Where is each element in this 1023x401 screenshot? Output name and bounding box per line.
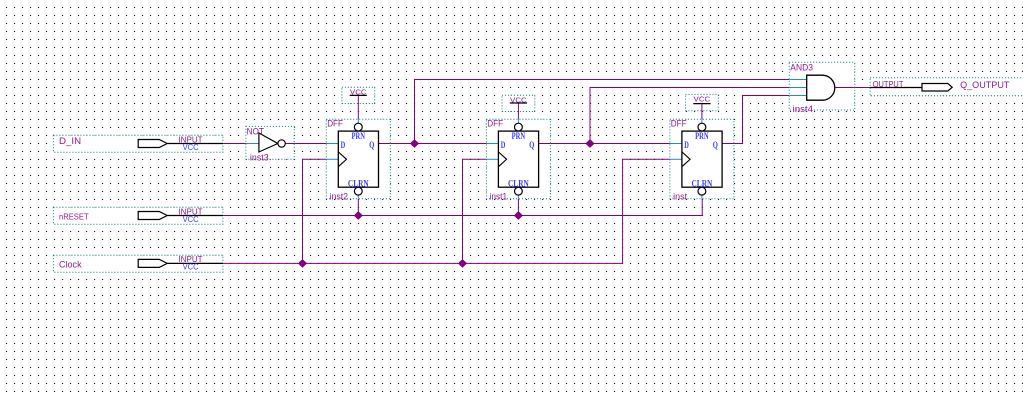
svg-text:CLRN: CLRN: [692, 179, 713, 189]
svg-text:DFF: DFF: [671, 119, 687, 129]
svg-text:inst1: inst1: [490, 191, 508, 201]
wire inst2 Q node up to AND3 input 1: [415, 80, 790, 144]
wire nRESET net: [223, 199, 702, 216]
svg-text:PRN: PRN: [695, 131, 709, 141]
svg-text:Q_OUTPUT: Q_OUTPUT: [960, 80, 1009, 91]
svg-text:Q: Q: [529, 140, 534, 150]
svg-text:DFF: DFF: [487, 119, 503, 129]
svg-text:VCC: VCC: [183, 215, 199, 224]
svg-text:nRESET: nRESET: [59, 211, 89, 221]
svg-text:D_IN: D_IN: [59, 136, 81, 147]
svg-text:AND3: AND3: [790, 63, 813, 73]
wire AND3 output stub: [835, 87, 855, 89]
wire inst Q up to AND3 input 3: [734, 96, 789, 144]
wire Clock riser to inst2 clock: [303, 159, 327, 263]
and gate AND3 inst4: [789, 62, 855, 114]
junction at inst1 CLRN: [514, 211, 523, 220]
svg-text:VCC: VCC: [183, 263, 199, 272]
NOT gate inst3: [246, 126, 294, 162]
input pin D_IN: [53, 135, 223, 152]
svg-text:inst3: inst3: [250, 152, 269, 162]
wire inst2 CLRN to nRESET net: [357, 199, 359, 216]
svg-text:VCC: VCC: [183, 143, 199, 152]
wire inst1 CLRN to nRESET net: [517, 199, 519, 216]
output pin Q_OUTPUT: [870, 78, 1023, 96]
junction at inst1 Q node: [585, 139, 594, 148]
svg-text:inst2: inst2: [330, 191, 349, 201]
DFF inst1: [486, 119, 550, 202]
wire AND3 output to Q_OUTPUT pin: [855, 87, 870, 89]
DFF inst2: [326, 119, 390, 202]
junction Clock riser inst2: [298, 259, 307, 268]
junction at inst2 CLRN: [354, 211, 363, 220]
svg-text:inst: inst: [673, 191, 687, 201]
DFF inst: [670, 119, 734, 202]
svg-text:Clock: Clock: [59, 260, 82, 270]
input pin Clock: [53, 255, 223, 272]
power VCC symbol for inst1: [502, 95, 535, 111]
wire VCC to inst PRN: [701, 104, 703, 119]
wire inst1 Q node up to AND3 input 2: [590, 88, 789, 144]
wire D_IN pin to NOT input: [223, 143, 246, 145]
power VCC symbol for inst2: [342, 87, 375, 103]
power VCC symbol for inst: [686, 94, 719, 110]
svg-text:CLRN: CLRN: [348, 179, 369, 189]
input pin nRESET: [53, 207, 223, 224]
wire NOT output to inst2 D: [294, 143, 326, 145]
svg-text:D: D: [684, 140, 689, 150]
svg-text:D: D: [341, 140, 346, 150]
svg-text:DFF: DFF: [327, 119, 343, 129]
svg-text:PRN: PRN: [352, 131, 366, 141]
junction Clock riser inst1: [458, 259, 467, 268]
svg-text:PRN: PRN: [512, 131, 526, 141]
svg-text:inst4: inst4: [793, 104, 813, 114]
svg-text:CLRN: CLRN: [508, 179, 529, 189]
svg-text:VCC: VCC: [694, 95, 711, 104]
wire Clock riser to inst1 clock: [463, 159, 487, 263]
wire VCC to inst1 PRN: [517, 104, 519, 120]
svg-text:OUTPUT: OUTPUT: [873, 80, 904, 89]
wire VCC to inst2 PRN: [357, 96, 359, 119]
wire inst1 Q to inst D: [550, 143, 670, 145]
junction at inst2 Q node: [410, 139, 419, 148]
wire Clock net: [223, 159, 670, 263]
wire inst2 Q to inst1 D: [390, 143, 486, 145]
svg-text:Q: Q: [713, 140, 718, 150]
svg-text:Q: Q: [369, 140, 374, 150]
svg-text:NOT: NOT: [247, 127, 265, 137]
svg-text:D: D: [501, 140, 506, 150]
